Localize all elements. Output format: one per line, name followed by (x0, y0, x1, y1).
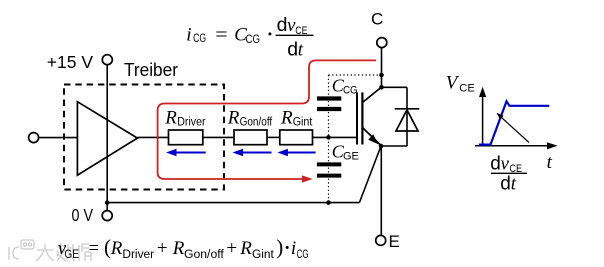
wire collector to diode (382, 86, 408, 88)
blue arrow under R_Gint (277, 149, 315, 157)
svg-text:E: E (389, 232, 400, 251)
wire R_Gon/off to R_Gint (267, 136, 280, 138)
svg-text:t: t (511, 173, 517, 194)
svg-text:Driver: Driver (177, 116, 205, 128)
resistor R_Gon/off (227, 108, 273, 145)
formula v_GE = (R_Driver + R_Gon/off + R_Gint) * i_CG (58, 235, 309, 261)
wire +15V supply (106, 65, 108, 203)
node C_GE return junction (326, 200, 331, 205)
svg-text:d: d (287, 39, 298, 61)
wire emitter return diagonal (359, 146, 381, 203)
svg-text:Gon/off: Gon/off (184, 249, 225, 261)
red current path i_CG (158, 60, 376, 182)
svg-text:t: t (298, 40, 304, 61)
wire gate (313, 136, 357, 138)
node collector junction (379, 85, 384, 90)
wire 0V return (107, 202, 359, 204)
input terminal (29, 133, 39, 143)
svg-text:+15 V: +15 V (47, 52, 94, 72)
blue arrow under R_Driver (166, 149, 206, 157)
terminal 0 V (72, 203, 113, 225)
wire R_Driver to R_Gon/off (203, 136, 234, 138)
node gate junction (326, 135, 331, 140)
svg-text:0 V: 0 V (72, 205, 94, 225)
capacitor C_CG (317, 76, 358, 110)
svg-text:d: d (490, 153, 501, 174)
svg-text:GE: GE (343, 151, 359, 163)
node 0V junction (105, 200, 110, 205)
svg-text:Gint: Gint (293, 116, 313, 128)
svg-text:R: R (280, 108, 293, 129)
blue arrow under R_Gon/off (233, 149, 272, 157)
resistor R_Driver (164, 108, 205, 145)
svg-text:C: C (371, 10, 383, 29)
x axis (475, 145, 549, 147)
terminal E (376, 232, 400, 251)
svg-text:Gon/off: Gon/off (240, 116, 273, 128)
svg-text:CG: CG (246, 34, 261, 46)
svg-text:·: · (267, 25, 273, 46)
svg-text:Driver: Driver (122, 249, 154, 261)
svg-text:+: + (157, 238, 168, 259)
svg-text:i: i (291, 238, 296, 259)
graph V_CE vs t (446, 73, 558, 195)
svg-text:Gint: Gint (252, 249, 275, 261)
watermark (9, 240, 91, 261)
svg-text:=: = (215, 25, 227, 46)
svg-text:+: + (226, 238, 237, 259)
terminal +15 V (47, 52, 113, 72)
svg-text:d: d (500, 173, 511, 194)
wire diode bottom to emitter (381, 145, 407, 147)
wire input (39, 137, 78, 139)
svg-text:=: = (89, 238, 99, 259)
dotted net C_CG/C_GE to collector (329, 75, 382, 203)
resistor R_Gint (280, 108, 313, 145)
V_CE curve (479, 101, 549, 144)
op-amp driver buffer (77, 102, 137, 176)
svg-text:): ) (276, 235, 283, 259)
IGBT Q1 (357, 88, 381, 146)
svg-text:R: R (110, 238, 123, 259)
formula i_CG = C_CG * dv_CE/dt (186, 14, 313, 61)
svg-text:·: · (284, 238, 290, 259)
svg-text:CG: CG (343, 84, 358, 96)
svg-text:v: v (501, 153, 510, 174)
svg-text:CG: CG (193, 33, 206, 45)
svg-text:R: R (172, 238, 185, 259)
y axis (482, 96, 484, 146)
svg-text:R: R (227, 108, 240, 129)
svg-text:t: t (547, 152, 553, 173)
capacitor C_GE (317, 142, 359, 176)
wire collector (381, 48, 383, 88)
svg-text:CE: CE (459, 83, 475, 95)
node emitter junction (379, 144, 384, 149)
svg-text:Treiber: Treiber (124, 60, 178, 80)
svg-text:R: R (164, 108, 177, 129)
driver dashed box (64, 85, 224, 190)
svg-text:GE: GE (64, 249, 79, 261)
svg-text:R: R (239, 238, 252, 259)
svg-text:CG: CG (297, 249, 309, 261)
terminal C (371, 10, 387, 48)
slope arrow (502, 118, 530, 143)
svg-text:d: d (277, 14, 288, 36)
wire emitter to E terminal (380, 146, 382, 235)
svg-text:i: i (186, 25, 191, 46)
wire driver output (137, 136, 168, 138)
node collector-dotted junction (379, 73, 384, 78)
diode D1 freewheeling (395, 87, 420, 146)
